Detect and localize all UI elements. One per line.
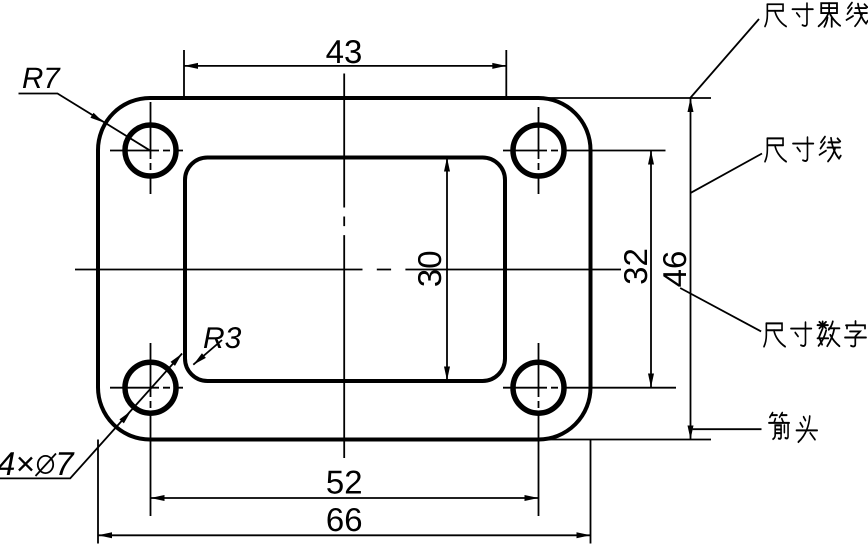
label chi-cun-jie-xian — [765, 4, 786, 26]
phi symbol — [38, 456, 53, 473]
extension lines dim 43 — [184, 50, 506, 98]
dimension 30 inner height — [446, 158, 448, 381]
dimension 52 hole spacing horizontal — [151, 497, 539, 499]
label chi-cun-shu-zi — [764, 323, 785, 346]
inner pocket outline 43x30 R3 — [185, 158, 505, 382]
label chi-cun-xian — [765, 138, 786, 161]
hole bottom-left phi7 — [125, 362, 176, 413]
hole bottom-right phi7 — [513, 362, 564, 413]
node crosshair bottom-left hole with 52 extension — [110, 387, 183, 389]
leader to extension line (chi cun jie xian) — [690, 19, 759, 99]
leader and label R3 — [193, 340, 222, 365]
outer plate outline 66x46 R7 — [98, 98, 591, 440]
dimension 66 overall width — [98, 534, 591, 536]
hole top-left phi7 — [125, 125, 176, 176]
dimension 32 hole spacing vertical — [650, 151, 652, 388]
node crosshair top-right hole with 32 extension — [503, 150, 666, 152]
node crosshair top-left hole — [110, 150, 183, 152]
wire vertical plate centerline — [343, 74, 345, 459]
dimension 43 top — [184, 65, 506, 67]
label jian-tou — [769, 413, 789, 439]
extension lines dim 66 — [98, 440, 591, 544]
node crosshair bottom-right hole with 32/52 extensions — [503, 387, 676, 389]
leader to dimension line (chi cun xian) — [691, 154, 762, 193]
leader to arrowhead (jian tou) — [693, 428, 762, 430]
extension lines dim 46 — [545, 98, 711, 440]
leader and label 4x phi7 — [0, 354, 182, 479]
dimension 46 overall height — [690, 98, 692, 440]
wire horizontal plate centerline — [75, 269, 621, 271]
leader and label R7 — [19, 94, 151, 151]
hole top-right phi7 — [513, 125, 564, 176]
leader to dimension number (chi cun shu zi) — [680, 288, 761, 331]
